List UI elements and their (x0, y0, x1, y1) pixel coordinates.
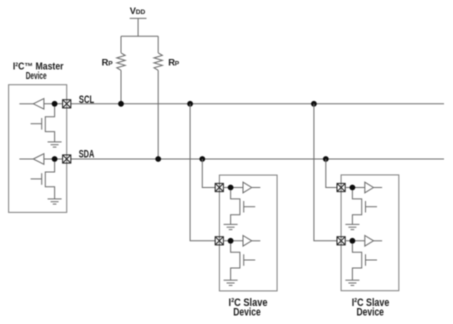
pad: master SCL pin (63, 100, 71, 108)
wire: right resistor to SDA (157, 70, 159, 159)
ground (Q1 source) (48, 142, 62, 147)
ground (Q5 source) (345, 224, 359, 229)
wire: left resistor to SCL (120, 70, 122, 104)
label RP (right) (168, 57, 180, 68)
wire: SDA drop to slave1 upper pad (202, 159, 215, 188)
wire: buffer output stub (slave2 SDA) (374, 187, 383, 189)
label RP (left) (102, 57, 114, 68)
pad: master SDA pin (63, 155, 71, 163)
pad: slave2 SCL pin (337, 237, 345, 245)
wire: buffer input stub (SDA) (19, 158, 33, 160)
svg-text:SCL: SCL (79, 94, 94, 106)
wire: buffer output stub (slave1 SDA) (252, 187, 261, 189)
wire: pad to buffer (slave2 SCL) (345, 240, 365, 242)
junction: slave1 drop on SDA (199, 156, 205, 162)
ground (Q6 source) (345, 280, 359, 285)
resistor RP (left pull-up) (117, 53, 125, 70)
ground (Q4 source) (224, 280, 238, 285)
wire: buffer output stub (slave2 SCL) (374, 240, 383, 242)
svg-text:Device: Device (233, 307, 260, 319)
label: I2C Slave Device 2 (352, 297, 390, 318)
transistor Q2 (open-drain SDA driver) (31, 162, 55, 199)
transistor Q3 (slave1 SDA open-drain) (231, 190, 256, 224)
svg-text:Device: Device (26, 71, 47, 82)
wire: split bar to left resistor (120, 36, 122, 53)
junction: slave1 drop on SCL (187, 101, 193, 107)
op-amp buffer A2 (SDA output driver) (33, 154, 44, 165)
junction: RP-right on SDA (155, 156, 161, 162)
wire: buffer to pad (SDA) (44, 158, 63, 160)
wire: buffer to pad (SCL) (44, 103, 63, 105)
pad: slave1 SCL pin (215, 237, 223, 245)
label: I2C Slave Device 1 (229, 297, 268, 318)
ground (Q2 source) (48, 199, 62, 204)
transistor Q4 (slave1 SCL open-drain) (231, 243, 256, 280)
pad: slave2 SDA pin (337, 183, 345, 191)
VDD supply rail bar (121, 18, 158, 36)
resistor RP (right pull-up) (154, 53, 162, 70)
node: master SDA net (52, 156, 58, 162)
svg-text:Device: Device (357, 307, 384, 319)
wire: buffer input stub (SCL) (19, 103, 33, 105)
label: I2C Master Device (13, 62, 64, 82)
wire: split bar to right resistor (157, 36, 159, 53)
pad: slave1 SDA pin (215, 183, 223, 191)
I2C slave device 1 box (219, 175, 277, 291)
node: slave2 SDA net (350, 185, 356, 191)
svg-text:P: P (108, 61, 113, 68)
node: master SCL net (52, 101, 58, 107)
wire SDA bus (71, 158, 444, 160)
wire: buffer output stub (slave1 SCL) (252, 240, 261, 242)
wire: pad to buffer (slave1 SCL) (223, 240, 243, 242)
transistor Q6 (slave2 SCL open-drain) (352, 243, 377, 280)
junction: slave2 drop on SDA (323, 156, 329, 162)
wire: SCL drop to slave2 lower pad (314, 104, 337, 241)
junction: RP-left on SCL (118, 101, 124, 107)
svg-text:SDA: SDA (79, 149, 95, 161)
wire SCL bus (71, 103, 444, 105)
node: slave1 SDA net (228, 185, 234, 191)
transistor Q5 (slave2 SDA open-drain) (352, 190, 377, 224)
op-amp buffer A6 (slave2 SCL input) (365, 236, 374, 247)
svg-text:DD: DD (136, 9, 146, 16)
wire: pad to buffer (slave1 SDA) (223, 187, 243, 189)
op-amp buffer A4 (slave1 SCL input) (243, 236, 252, 247)
wire: pad to buffer (slave2 SDA) (345, 187, 365, 189)
I2C slave device 2 box (341, 175, 399, 291)
op-amp buffer A3 (slave1 SDA input) (243, 182, 252, 193)
I2C master device box (9, 85, 67, 213)
op-amp buffer A1 (SCL output driver) (33, 99, 44, 110)
wire: SCL drop to slave1 lower pad (190, 104, 215, 241)
transistor Q1 (open-drain SCL driver) (31, 106, 55, 141)
node VDD (supply label) (130, 6, 146, 16)
op-amp buffer A5 (slave2 SDA input) (365, 182, 374, 193)
node: slave2 SCL net (350, 238, 356, 244)
svg-text:P: P (175, 61, 180, 68)
ground (Q3 source) (224, 224, 238, 229)
wire: SDA drop to slave2 upper pad (326, 159, 337, 188)
junction: slave2 drop on SCL (311, 101, 317, 107)
node: slave1 SCL net (228, 238, 234, 244)
